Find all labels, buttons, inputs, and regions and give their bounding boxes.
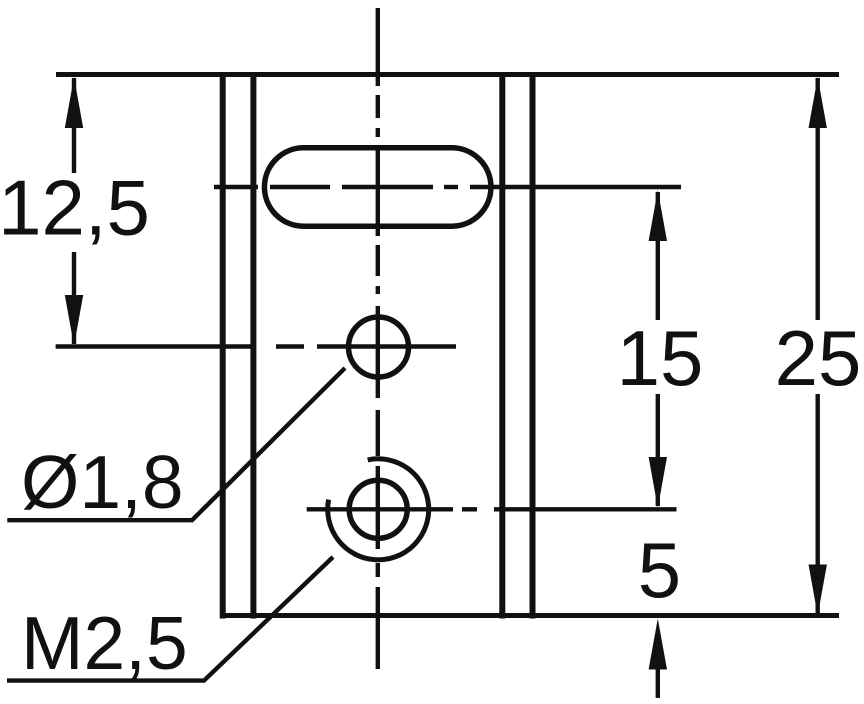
- dimension 12.5 line: [72, 78, 76, 344]
- dimension 15 arrow up: [649, 190, 667, 241]
- svg-text:15: 15: [617, 314, 704, 402]
- slot obround: [264, 148, 491, 227]
- svg-text:M2,5: M2,5: [21, 601, 188, 685]
- wire part right inner bend line: [499, 72, 505, 619]
- hole M2.5 minor circle: [349, 480, 407, 538]
- dimension 15 line: [656, 192, 660, 506]
- leader line for M2.5: [7, 557, 333, 681]
- wire part right edge: [530, 72, 536, 619]
- wire bottom edge line with extension: [220, 613, 839, 618]
- hole M2.5 horizontal centerline with extension: [307, 507, 677, 511]
- svg-text:5: 5: [638, 526, 681, 614]
- svg-text:Ø1,8: Ø1,8: [21, 440, 184, 524]
- hole circle D1.8: [349, 317, 409, 377]
- dimension 12.5 arrow down: [65, 295, 83, 346]
- dimension 25 arrow up: [809, 77, 827, 128]
- dimension 15 arrow down: [649, 457, 667, 508]
- dimension 5 arrow below bottom line: [656, 665, 660, 698]
- svg-text:12,5: 12,5: [0, 164, 150, 252]
- vertical centerline: [376, 8, 380, 669]
- dimension 25 arrow down: [809, 565, 827, 616]
- wire top edge line with extension: [56, 72, 839, 77]
- wire part left inner bend line: [250, 72, 256, 619]
- dimension 12.5 arrow up: [65, 77, 83, 128]
- hole M2.5 thread arc: [328, 459, 429, 560]
- wire part left edge: [220, 72, 226, 619]
- svg-text:25: 25: [775, 314, 862, 402]
- leader line for D1.8: [7, 368, 345, 520]
- hole D1.8 horizontal centerline with 12.5 extension: [56, 344, 456, 348]
- dimension 25 line: [816, 78, 820, 613]
- slot horizontal centerline: [214, 185, 681, 189]
